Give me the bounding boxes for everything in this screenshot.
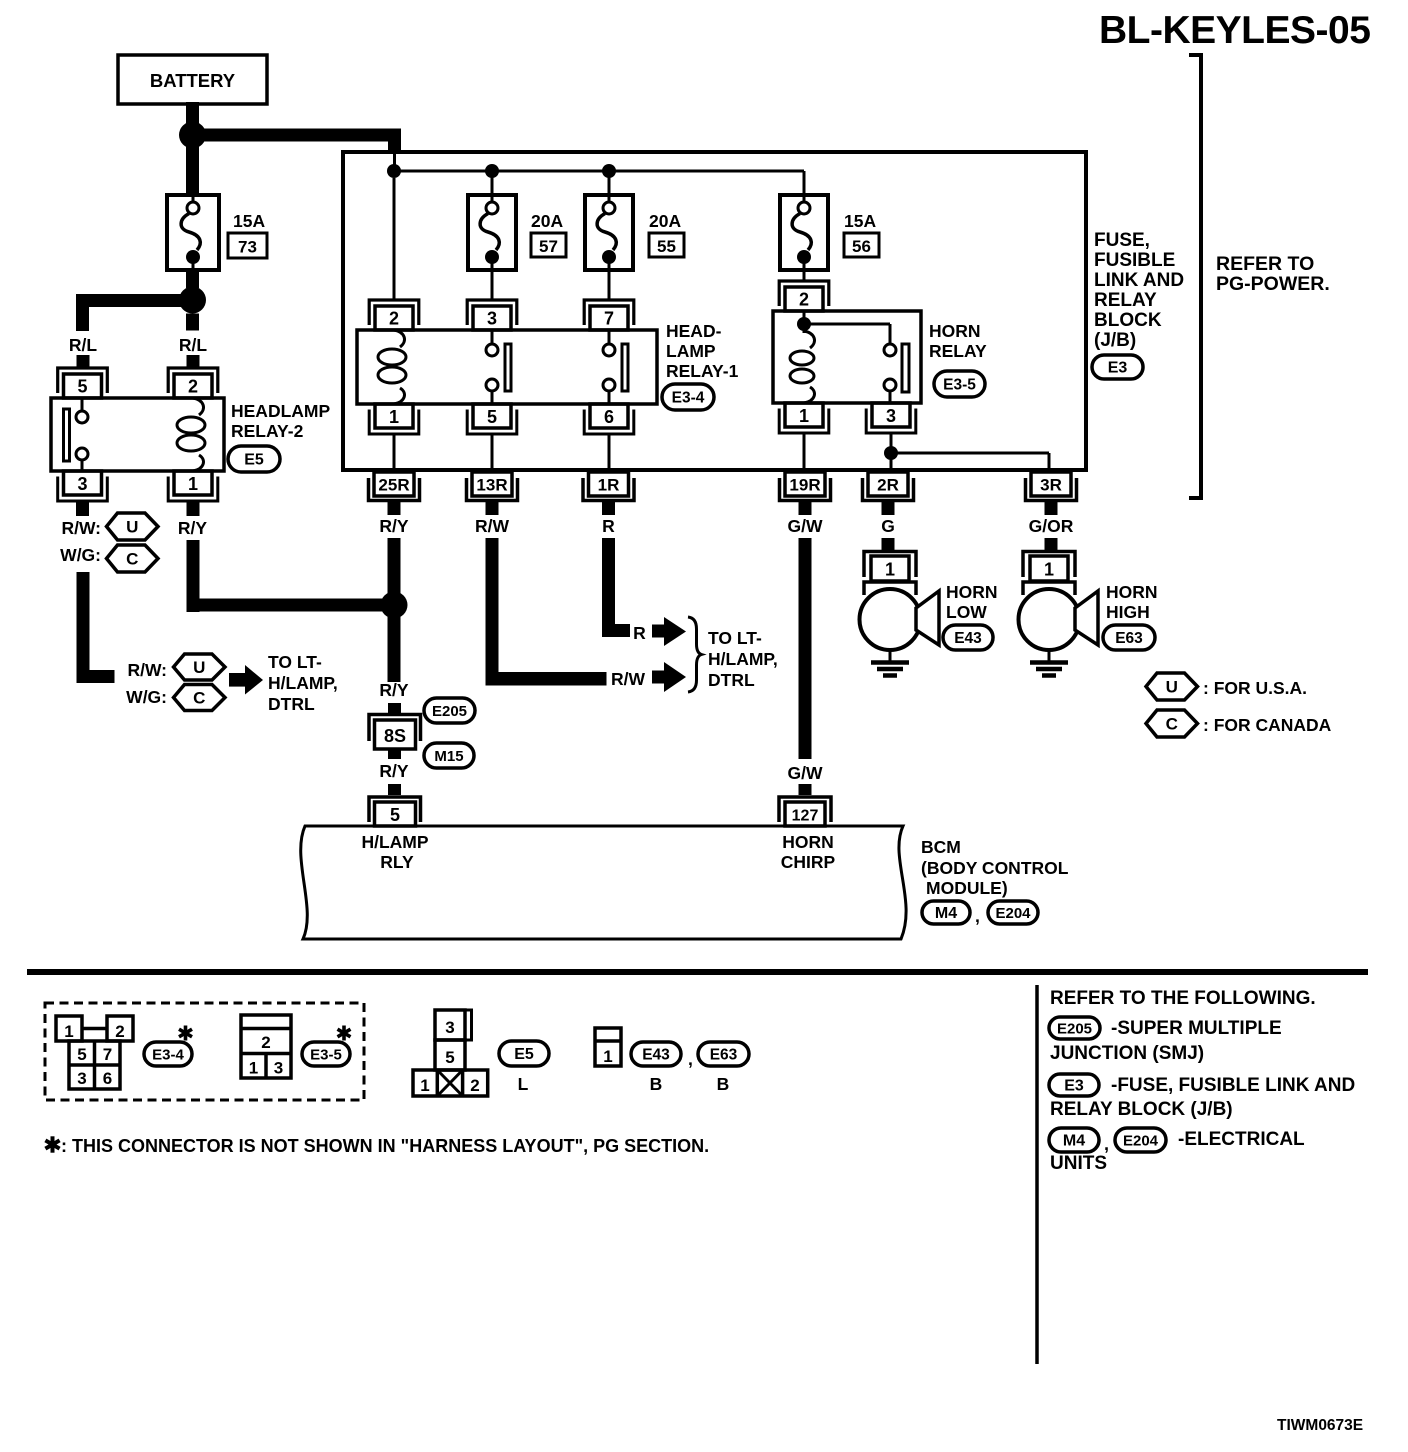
svg-text:M15: M15 — [434, 748, 463, 765]
connector oval M4 — [922, 901, 970, 924]
horn high connector and symbol E63 — [1019, 552, 1099, 676]
horn low connector and symbol E43 — [860, 552, 940, 676]
connector oval M4 (refer) — [1049, 1128, 1099, 1152]
connector diagram E3-5 — [241, 1015, 291, 1078]
wire R from 1R (thick L) — [602, 538, 630, 637]
wire junction to fuse block (thick feed) — [192, 129, 401, 154]
svg-text:E3-4: E3-4 — [152, 1047, 184, 1064]
wire fuse 56 to horn relay pin 2 — [803, 270, 806, 282]
svg-text:U: U — [1166, 678, 1178, 697]
svg-text:2: 2 — [470, 1076, 479, 1095]
svg-text:1: 1 — [799, 406, 809, 426]
svg-text:TO LT-: TO LT- — [708, 628, 762, 648]
svg-text:E3: E3 — [1108, 360, 1128, 377]
svg-text:B: B — [650, 1074, 663, 1094]
connector pin 5 of headlamp relay-1 — [467, 404, 517, 434]
svg-text:19R: 19R — [789, 476, 820, 495]
wire stub below 8S — [388, 749, 401, 759]
svg-text:G/OR: G/OR — [1029, 516, 1074, 536]
svg-text:M4: M4 — [935, 905, 957, 922]
svg-text:1: 1 — [603, 1047, 612, 1066]
fuse 57 20A — [468, 195, 516, 270]
wire G/W from 19R down — [799, 538, 812, 759]
brace to LT-H/LAMP DTRL — [688, 617, 702, 692]
svg-text:1: 1 — [885, 560, 895, 580]
svg-text:R/L: R/L — [69, 335, 98, 355]
svg-text:5: 5 — [77, 377, 87, 397]
svg-text:,: , — [1104, 1134, 1109, 1154]
connector oval E5 — [228, 446, 280, 472]
connector pin 3 of headlamp relay-1 — [467, 300, 517, 330]
label HEAD-LAMP RELAY-1 — [666, 321, 739, 381]
svg-text:BLOCK: BLOCK — [1094, 310, 1162, 331]
label BCM (BODY CONTROL MODULE) — [921, 837, 1069, 898]
svg-text:R: R — [633, 623, 646, 643]
svg-text:3: 3 — [487, 309, 497, 329]
wire stub below 3R — [1045, 502, 1058, 515]
wire node to 2R — [890, 459, 893, 468]
label 56 box — [844, 233, 879, 257]
relay-1 switch A — [486, 330, 511, 404]
fuse 55 20A — [585, 195, 633, 270]
node bus at 25R column — [387, 164, 401, 178]
connector oval E3-5 — [934, 371, 985, 397]
svg-text:W/G:: W/G: — [126, 687, 167, 707]
fuse 56 15A — [780, 195, 828, 270]
connector diagram E5 — [413, 1010, 488, 1096]
label HORN RELAY — [929, 321, 987, 361]
svg-text:2: 2 — [188, 377, 198, 397]
wire fuse 55 to relay-1 pin 7 — [608, 270, 611, 301]
connector pin 1 of horn relay — [779, 403, 829, 433]
connector 3R — [1026, 472, 1077, 501]
svg-text:DTRL: DTRL — [268, 694, 315, 714]
bracket refer to pg-power — [1189, 55, 1201, 498]
svg-text:RELAY-2: RELAY-2 — [231, 421, 304, 441]
svg-text:UNITS: UNITS — [1050, 1153, 1107, 1174]
label 57 box — [531, 233, 566, 257]
connector oval E5 (footnote) — [499, 1041, 549, 1066]
svg-text:-FUSE, FUSIBLE LINK AND: -FUSE, FUSIBLE LINK AND — [1111, 1075, 1355, 1096]
svg-text:HEAD-: HEAD- — [666, 321, 722, 341]
svg-text:LINK AND: LINK AND — [1094, 270, 1184, 291]
connector pin 2 of headlamp relay-1 — [369, 300, 419, 330]
connector oval E3 (block) — [1092, 355, 1143, 379]
svg-text:1: 1 — [188, 474, 198, 494]
svg-text:15A: 15A — [233, 211, 265, 231]
label REFER TO PG-POWER. — [1216, 253, 1330, 295]
svg-text:R: R — [602, 516, 615, 536]
svg-text:G: G — [881, 516, 895, 536]
svg-text:57: 57 — [539, 237, 558, 256]
svg-text:HORN: HORN — [782, 832, 834, 852]
connector pin 3 of headlamp relay-2 — [58, 471, 108, 501]
wire relay-1 pin6 to 1R — [608, 433, 611, 468]
svg-text:C: C — [126, 550, 138, 569]
svg-text:55: 55 — [657, 237, 676, 256]
wire stub G/OR to horn high — [1045, 538, 1058, 551]
svg-text:1: 1 — [64, 1022, 73, 1041]
asterisk E3-5 — [338, 1026, 351, 1041]
svg-text:R/W: R/W — [611, 669, 646, 689]
svg-text:73: 73 — [238, 238, 257, 257]
svg-text:1: 1 — [1044, 560, 1054, 580]
label 55 box — [649, 233, 684, 257]
svg-text:HORN: HORN — [1106, 582, 1158, 602]
svg-text:U: U — [126, 518, 138, 537]
connector pin 2 of horn relay — [779, 281, 829, 311]
svg-text:6: 6 — [103, 1069, 112, 1088]
svg-text:E3-5: E3-5 — [943, 377, 976, 394]
svg-text:3R: 3R — [1040, 476, 1062, 495]
svg-text:E63: E63 — [1115, 630, 1143, 647]
svg-text:-SUPER MULTIPLE: -SUPER MULTIPLE — [1111, 1018, 1282, 1039]
svg-text:BATTERY: BATTERY — [150, 70, 236, 91]
svg-text:R/L: R/L — [179, 335, 208, 355]
svg-text:: FOR U.S.A.: : FOR U.S.A. — [1203, 678, 1307, 698]
svg-text:E3: E3 — [1064, 1078, 1084, 1095]
wire stub to pin 5 — [77, 355, 90, 369]
svg-text:HORN: HORN — [929, 321, 981, 341]
relay-1 switch B — [603, 330, 628, 404]
svg-text:56: 56 — [852, 237, 871, 256]
wire stub below 19R — [799, 502, 812, 515]
connector diagram E3-4 — [56, 1016, 133, 1089]
svg-text:2: 2 — [389, 309, 399, 329]
horn relay box — [773, 311, 921, 403]
svg-text:(BODY CONTROL: (BODY CONTROL — [921, 858, 1069, 878]
asterisk E3-4 — [179, 1026, 192, 1041]
svg-text:E43: E43 — [954, 630, 982, 647]
wire bus to fuse 56 — [803, 171, 806, 196]
wire stub below 1R — [602, 502, 615, 515]
wire stub to pin 2 — [187, 355, 200, 369]
label 73 box — [228, 233, 267, 258]
svg-text:E5: E5 — [244, 452, 264, 469]
wire junction down to fuse 73 — [186, 135, 199, 195]
arrow R/W to LT-H/LAMP — [652, 662, 686, 692]
svg-text:TIWM0673E: TIWM0673E — [1277, 1417, 1363, 1434]
svg-text:,: , — [975, 906, 980, 926]
svg-text:DTRL: DTRL — [708, 670, 755, 690]
connector oval E205 — [424, 698, 475, 723]
footnote asterisk — [45, 1136, 59, 1152]
connector oval E3-5 (footnote) — [302, 1042, 350, 1066]
svg-text:LOW: LOW — [946, 602, 987, 622]
label FUSE FUSIBLE LINK AND RELAY BLOCK (J/B) — [1094, 230, 1184, 351]
node battery junction — [179, 122, 206, 149]
svg-text:TO LT-: TO LT- — [268, 652, 322, 672]
node horn pin3 junction — [884, 446, 898, 460]
svg-text:E3-5: E3-5 — [310, 1047, 342, 1064]
svg-text:RELAY: RELAY — [929, 341, 987, 361]
svg-text:JUNCTION (SMJ): JUNCTION (SMJ) — [1050, 1043, 1204, 1064]
connector oval E43 — [943, 625, 993, 650]
svg-text:U: U — [193, 658, 205, 677]
svg-text:R/Y: R/Y — [178, 518, 208, 538]
svg-text:(J/B): (J/B) — [1094, 330, 1136, 351]
svg-text:BCM: BCM — [921, 837, 961, 857]
svg-text:3: 3 — [77, 474, 87, 494]
wire R/W from 13R (thick L) — [486, 538, 607, 686]
svg-text:7: 7 — [604, 309, 614, 329]
wire R/Y from 25R to node — [388, 538, 401, 600]
label W/G: with C hexagon (to arrow) — [126, 685, 225, 711]
svg-text:R/W:: R/W: — [127, 660, 167, 680]
svg-text:RLY: RLY — [380, 852, 414, 872]
connector pin 1 of headlamp relay-2 — [168, 471, 218, 501]
connector oval E3 (refer) — [1049, 1074, 1099, 1096]
svg-text:G/W: G/W — [788, 763, 823, 783]
wire stub G to horn low — [882, 538, 895, 551]
svg-text:2: 2 — [261, 1033, 270, 1052]
svg-text:G/W: G/W — [788, 516, 823, 536]
relay-2 coil — [177, 398, 205, 471]
connector oval E3-4 — [662, 384, 714, 410]
title — [1099, 9, 1370, 52]
svg-text:2: 2 — [115, 1022, 124, 1041]
relay-2 switch contacts — [64, 398, 89, 471]
fuse/relay block big box (J/B) — [343, 152, 1086, 470]
svg-text:25R: 25R — [378, 476, 409, 495]
svg-text:127: 127 — [792, 808, 819, 825]
svg-text:3: 3 — [77, 1069, 86, 1088]
wire fuse 73 to junction 2 — [186, 270, 199, 288]
wire stub below 2R — [882, 502, 895, 515]
svg-text:6: 6 — [604, 407, 614, 427]
wire relay-2 pin1 R/Y down and right to node — [187, 540, 395, 612]
svg-text:-ELECTRICAL: -ELECTRICAL — [1178, 1129, 1305, 1150]
label H/LAMP RLY — [361, 832, 428, 872]
svg-text:R/Y: R/Y — [379, 516, 409, 536]
connector 13R — [467, 472, 518, 501]
fuse 73 15A — [167, 195, 219, 270]
svg-text:E5: E5 — [514, 1046, 534, 1063]
wire junction to relay-2 pin 5 (left branch) — [76, 294, 193, 331]
headlamp relay-1 box — [357, 330, 657, 404]
svg-text:L: L — [518, 1074, 529, 1094]
wire stub below pin 1 — [187, 501, 200, 516]
wire bus to fuse 57 — [491, 171, 494, 196]
wire stub below pin 3 — [76, 501, 89, 516]
svg-text:20A: 20A — [649, 211, 681, 231]
relay-1 coil — [378, 330, 406, 404]
connector oval M15 — [424, 743, 474, 768]
svg-text:E204: E204 — [1123, 1133, 1159, 1150]
battery — [118, 55, 267, 104]
wire relay-1 pin1 to 25R — [393, 433, 396, 468]
svg-text:5: 5 — [445, 1048, 454, 1067]
connector oval E204 (refer) — [1115, 1128, 1166, 1152]
svg-text:RELAY: RELAY — [1094, 290, 1157, 311]
wire into fuse block bus — [393, 152, 396, 171]
svg-text:REFER TO THE FOLLOWING.: REFER TO THE FOLLOWING. — [1050, 988, 1316, 1009]
wire stub to 8S — [388, 703, 401, 713]
wire stub to conn 5 — [388, 784, 401, 795]
svg-text:8S: 8S — [384, 726, 406, 746]
svg-text:E204: E204 — [995, 905, 1031, 922]
connector pin 6 of headlamp relay-1 — [584, 404, 634, 434]
svg-text:E3-4: E3-4 — [672, 390, 705, 407]
label HEADLAMP RELAY-2 — [231, 401, 330, 441]
arrow R to LT-H/LAMP — [652, 617, 686, 646]
svg-text:R/W:: R/W: — [61, 518, 101, 538]
svg-text:R/Y: R/Y — [379, 761, 409, 781]
connector 8S — [369, 715, 421, 750]
horn relay switch — [884, 344, 909, 403]
connector oval E63 — [1103, 625, 1155, 650]
svg-text:H/LAMP,: H/LAMP, — [708, 649, 778, 669]
svg-text:5: 5 — [390, 805, 400, 825]
connector 127 (BCM HORN CHIRP) — [779, 797, 831, 826]
connector pin 1 of headlamp relay-1 — [369, 404, 419, 434]
svg-text:H/LAMP: H/LAMP — [361, 832, 428, 852]
svg-text:RELAY-1: RELAY-1 — [666, 361, 739, 381]
wire relay-1 pin5 to 13R — [491, 433, 494, 468]
wire horn relay pin3 down — [890, 433, 893, 447]
label R/W: with U hexagon (to arrow) — [127, 654, 225, 680]
svg-text:REFER TO: REFER TO — [1216, 253, 1314, 275]
svg-text:20A: 20A — [531, 211, 563, 231]
svg-text:: THIS CONNECTOR IS NOT SHOWN: : THIS CONNECTOR IS NOT SHOWN IN "HARNES… — [61, 1136, 709, 1156]
svg-text:1R: 1R — [598, 476, 620, 495]
svg-text:7: 7 — [103, 1045, 112, 1064]
label HORN CHIRP — [781, 832, 836, 872]
svg-text:: FOR CANADA: : FOR CANADA — [1203, 715, 1332, 735]
connector 25R — [369, 472, 420, 501]
node junction below fuse 73 — [179, 287, 206, 314]
wire junction to relay-2 pin 2 — [186, 314, 199, 331]
label TO LT- H/LAMP, DTRL (left) — [268, 652, 338, 714]
svg-text:LAMP: LAMP — [666, 341, 716, 361]
label TO LT- H/LAMP, DTRL (right) — [708, 628, 778, 690]
wire bus to fuse 55 — [608, 171, 611, 196]
svg-text:FUSIBLE: FUSIBLE — [1094, 250, 1175, 271]
arrow to LT-H/LAMP DTRL — [229, 665, 263, 695]
svg-text:PG-POWER.: PG-POWER. — [1216, 273, 1330, 295]
wire horn relay pin2 to node — [803, 311, 806, 320]
connector 5 (BCM H/LAMP RLY) — [369, 797, 421, 826]
svg-text:RELAY BLOCK (J/B): RELAY BLOCK (J/B) — [1050, 1099, 1233, 1120]
node bus at fuse 55 — [602, 164, 616, 178]
svg-text:2: 2 — [799, 290, 809, 310]
svg-text:1: 1 — [420, 1076, 429, 1095]
svg-text:HORN: HORN — [946, 582, 998, 602]
svg-text:M4: M4 — [1063, 1133, 1085, 1150]
connector oval E205 (refer) — [1049, 1017, 1100, 1039]
svg-text:3: 3 — [445, 1018, 454, 1037]
svg-text:HIGH: HIGH — [1106, 602, 1150, 622]
svg-text:C: C — [1166, 715, 1178, 734]
node horn relay coil/contact — [797, 317, 811, 331]
connector diagram E43/E63 — [595, 1028, 621, 1066]
legend U hexagon FOR U.S.A. — [1146, 673, 1307, 700]
label R/W: with U hexagon — [61, 513, 158, 540]
connector pin 3 of horn relay — [866, 403, 916, 433]
svg-text:5: 5 — [77, 1045, 86, 1064]
wire battery to junction — [186, 102, 199, 124]
refer-to column divider — [1035, 985, 1039, 1364]
svg-text:2R: 2R — [877, 476, 899, 495]
legend C hexagon FOR CANADA — [1146, 710, 1332, 737]
svg-text:H/LAMP,: H/LAMP, — [268, 673, 338, 693]
wire node to 3R column — [891, 453, 1049, 468]
label W/G: with C hexagon — [60, 545, 158, 572]
wire R/Y node down — [388, 605, 401, 682]
connector oval E204 — [988, 901, 1038, 924]
wire pin3 branch down-right (thick L) — [77, 572, 115, 683]
connector 19R — [780, 472, 831, 501]
svg-text:15A: 15A — [844, 211, 876, 231]
svg-text:R/W: R/W — [475, 516, 510, 536]
label HORN HIGH — [1106, 582, 1158, 622]
svg-text:3: 3 — [274, 1059, 283, 1078]
wire stub below 25R — [388, 502, 401, 515]
wire horn relay pin1 to 19R — [803, 433, 806, 468]
wire stub to conn 127 — [799, 784, 812, 795]
connector pin 7 of headlamp relay-1 — [584, 300, 634, 330]
svg-text:C: C — [193, 689, 205, 708]
bus line inside block — [394, 170, 804, 173]
wire fuse 57 to relay-1 pin 3 — [491, 270, 494, 301]
svg-text:E205: E205 — [432, 703, 467, 720]
connector oval E63 (footnote) — [698, 1042, 749, 1066]
svg-text:E63: E63 — [710, 1047, 738, 1064]
svg-text:R/Y: R/Y — [379, 680, 409, 700]
BCM box — [301, 826, 906, 939]
svg-text:E43: E43 — [642, 1047, 670, 1064]
svg-text:W/G:: W/G: — [60, 545, 101, 565]
svg-text:5: 5 — [487, 407, 497, 427]
svg-text:13R: 13R — [476, 476, 507, 495]
connector 1R — [583, 472, 634, 501]
svg-text:FUSE,: FUSE, — [1094, 230, 1150, 251]
svg-text:B: B — [717, 1074, 730, 1094]
svg-text:HEADLAMP: HEADLAMP — [231, 401, 330, 421]
connector 2R — [863, 472, 914, 501]
separator line — [27, 969, 1368, 975]
wire node to contact — [804, 324, 890, 344]
dashed connector group box — [45, 1003, 364, 1100]
wire stub below 13R — [486, 502, 499, 515]
label HORN LOW — [946, 582, 998, 622]
svg-text:E205: E205 — [1057, 1021, 1092, 1038]
svg-text:3: 3 — [886, 406, 896, 426]
svg-text:1: 1 — [389, 407, 399, 427]
headlamp relay-2 box — [51, 398, 224, 471]
horn relay coil — [790, 326, 815, 403]
connector pin 2 of headlamp relay-2 — [168, 368, 218, 398]
node bus at fuse 57 — [485, 164, 499, 178]
svg-text:CHIRP: CHIRP — [781, 852, 836, 872]
svg-text:MODULE): MODULE) — [926, 878, 1008, 898]
svg-text:1: 1 — [249, 1059, 258, 1078]
wire bus down to relay-1 pin 2 — [393, 178, 396, 301]
svg-text:BL-KEYLES-05: BL-KEYLES-05 — [1099, 9, 1370, 52]
node R/Y merge — [381, 592, 408, 619]
svg-text:,: , — [688, 1049, 693, 1069]
connector oval E3-4 (footnote) — [144, 1042, 192, 1066]
connector oval E43 (footnote) — [631, 1042, 681, 1066]
connector pin 5 of headlamp relay-2 — [58, 368, 108, 398]
